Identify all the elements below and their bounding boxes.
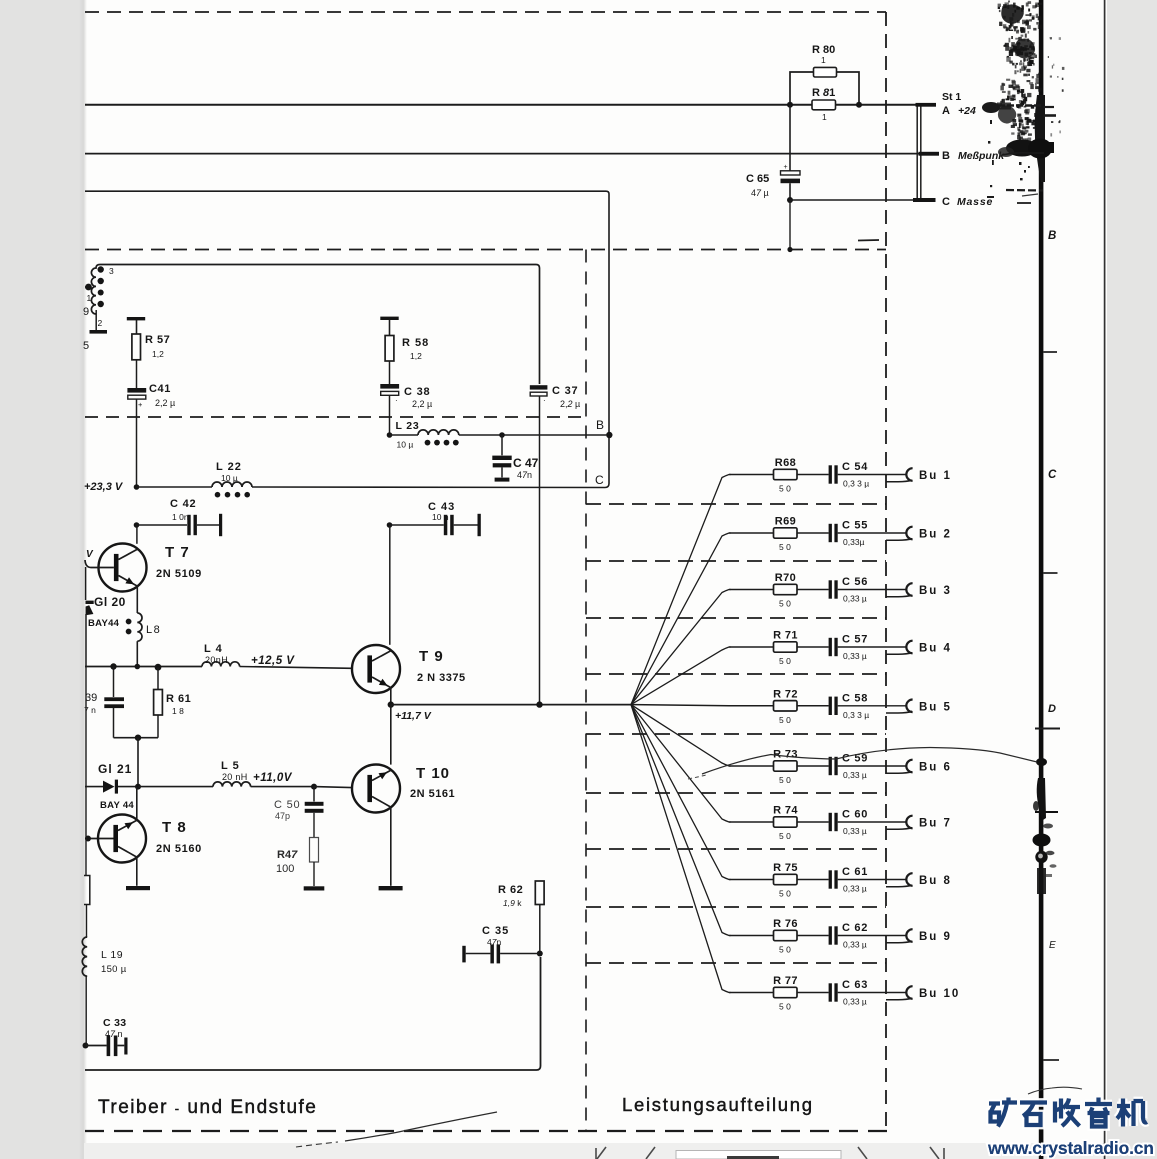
svg-text:C: C bbox=[595, 473, 604, 487]
junction C47 bbox=[499, 432, 505, 438]
svg-text:150 µ: 150 µ bbox=[101, 964, 127, 975]
svg-text:47n: 47n bbox=[517, 470, 532, 480]
inductor L5 bbox=[213, 782, 251, 787]
resistor R76 bbox=[774, 930, 798, 940]
svg-text:C 37: C 37 bbox=[552, 385, 578, 397]
junction transformer left lead bbox=[85, 286, 90, 288]
svg-text:0,3 3 µ: 0,3 3 µ bbox=[843, 710, 869, 720]
svg-text:A: A bbox=[942, 105, 950, 117]
wire to C43 bbox=[390, 524, 444, 526]
svg-text:·: · bbox=[543, 396, 546, 405]
svg-text:R70: R70 bbox=[775, 572, 796, 584]
wire riser node B/C to line y191 bbox=[605, 191, 609, 487]
resistor R70 bbox=[774, 584, 798, 594]
capacitor C39 (page edge, label cut) bbox=[104, 697, 124, 701]
svg-text:5 0: 5 0 bbox=[779, 831, 791, 841]
svg-text:L 5: L 5 bbox=[221, 760, 240, 772]
svg-text:BAY 44: BAY 44 bbox=[100, 800, 134, 811]
wire fan line to Bu 8 bbox=[631, 705, 731, 880]
wire Bu3 row left bbox=[729, 589, 774, 591]
svg-text:BAY44: BAY44 bbox=[88, 618, 120, 629]
svg-text:C 42: C 42 bbox=[170, 498, 196, 510]
svg-text:2: 2 bbox=[98, 318, 103, 328]
svg-text:R 73: R 73 bbox=[773, 749, 798, 761]
capacitor C50 bbox=[305, 802, 324, 806]
svg-text:B: B bbox=[942, 150, 950, 162]
connector Bu 3 socket bbox=[906, 583, 912, 596]
svg-text:Bu 1: Bu 1 bbox=[919, 470, 952, 482]
svg-text:L 23: L 23 bbox=[396, 420, 420, 432]
svg-text:5 0: 5 0 bbox=[779, 775, 791, 785]
svg-text:R 58: R 58 bbox=[402, 337, 429, 349]
capacitor C56 bbox=[829, 580, 832, 598]
junction +23,3V bbox=[134, 484, 140, 490]
junction C33 bbox=[83, 1043, 89, 1049]
svg-text:0,33 µ: 0,33 µ bbox=[843, 770, 867, 780]
wire R80 bypass loop bbox=[790, 72, 859, 105]
resistor at page edge (half cut) bbox=[84, 876, 90, 905]
resistor R61 bbox=[154, 690, 163, 716]
capacitor C62 bbox=[829, 926, 832, 944]
svg-text:1 8: 1 8 bbox=[172, 706, 184, 716]
svg-text:2 N 3375: 2 N 3375 bbox=[417, 672, 466, 684]
junction R62 node bbox=[536, 701, 542, 707]
resistor R58 top terminal bbox=[380, 317, 398, 320]
wire C47 upper bbox=[501, 435, 503, 455]
svg-text:Bu 5: Bu 5 bbox=[919, 701, 952, 713]
connector St1 pin C bar bbox=[913, 198, 936, 202]
svg-text:5 0: 5 0 bbox=[779, 889, 791, 899]
svg-text:R 57: R 57 bbox=[145, 334, 170, 346]
svg-text:R 62: R 62 bbox=[498, 884, 523, 896]
connector St1 pin B bar bbox=[919, 152, 940, 156]
diode Gl21 bbox=[103, 781, 115, 793]
connector Bu 1 socket bbox=[906, 468, 912, 481]
svg-text:+: + bbox=[784, 164, 788, 171]
wire +11,7V line to fan point bbox=[391, 704, 631, 706]
wire Bu2 right bbox=[838, 532, 906, 534]
wire inner box bottom line bbox=[85, 957, 541, 1070]
wire Messpunkt line B bbox=[85, 153, 919, 155]
wire Masse line C to St1 bbox=[790, 199, 913, 201]
svg-text:E: E bbox=[1049, 940, 1056, 951]
wire L4 to T9 base bbox=[240, 667, 352, 669]
svg-text:C 57: C 57 bbox=[842, 634, 868, 646]
wire Bu8 row left bbox=[729, 879, 774, 881]
wire Bu2 middle bbox=[797, 532, 829, 534]
capacitor C42 bbox=[187, 515, 190, 535]
svg-text:R 72: R 72 bbox=[773, 688, 798, 700]
resistor R58 bbox=[385, 336, 394, 362]
watermark CJK characters bbox=[989, 1098, 1147, 1127]
svg-text:T 9: T 9 bbox=[419, 648, 444, 665]
resistor R57 top terminal bbox=[127, 317, 145, 320]
svg-text:D: D bbox=[1048, 703, 1056, 715]
wire fan line to Bu 6 bbox=[631, 705, 731, 766]
wire fan line to Bu 5 (straight) bbox=[631, 705, 729, 706]
capacitor C38 (electrolytic) bbox=[380, 384, 399, 389]
wire page-edge column bbox=[85, 667, 87, 838]
svg-text:0,3 3 µ: 0,3 3 µ bbox=[843, 479, 869, 489]
resistor R73 bbox=[774, 761, 798, 771]
svg-text:C 62: C 62 bbox=[842, 922, 868, 934]
svg-text:20nH: 20nH bbox=[205, 655, 228, 665]
wire down to Gl21 node bbox=[137, 738, 139, 787]
wire R57 to C41 bbox=[136, 360, 138, 388]
svg-text:47n: 47n bbox=[487, 937, 501, 947]
junction node B bbox=[606, 432, 612, 438]
svg-text:Bu 3: Bu 3 bbox=[919, 585, 952, 597]
wire Bu9 right bbox=[838, 935, 906, 937]
wire to C42 bbox=[137, 524, 188, 526]
svg-text:5 0: 5 0 bbox=[779, 715, 791, 725]
junction L23 left bbox=[387, 432, 393, 438]
connector St1 pin A bar bbox=[916, 103, 937, 107]
svg-text:C 54: C 54 bbox=[842, 461, 868, 473]
dashed separator y417 bbox=[85, 416, 586, 418]
dashed frame right edge bbox=[885, 12, 887, 1131]
svg-text:C 35: C 35 bbox=[482, 925, 509, 937]
svg-text:+23,3 V: +23,3 V bbox=[84, 481, 124, 493]
capacitor C65 (electrolytic) bbox=[781, 171, 801, 175]
svg-text:47p: 47p bbox=[275, 811, 290, 821]
svg-text:1 0n: 1 0n bbox=[172, 512, 189, 522]
artifact speckle field top right bbox=[998, 1, 1065, 151]
capacitor C59 bbox=[829, 757, 832, 775]
wire Bu10 row left bbox=[729, 992, 774, 994]
wire C39 lower bbox=[113, 708, 115, 738]
svg-text:St 1: St 1 bbox=[942, 91, 961, 103]
wire R61 lower bbox=[157, 715, 159, 738]
connector Bu 4 socket bbox=[906, 641, 912, 654]
svg-text:2N 5161: 2N 5161 bbox=[410, 788, 455, 800]
junction on dashed line bbox=[787, 247, 792, 252]
wire C50 upper bbox=[313, 787, 315, 802]
page edge boundary line right bbox=[1104, 0, 1106, 1159]
svg-text:Bu 2: Bu 2 bbox=[919, 529, 952, 541]
wire C38 down to L23 node bbox=[389, 395, 391, 435]
svg-text:C 60: C 60 bbox=[842, 809, 868, 821]
transistor T8 bbox=[98, 815, 146, 863]
svg-text:C: C bbox=[942, 196, 950, 208]
diode Gl20 (page edge) bbox=[86, 601, 94, 604]
inductor L19 (page edge) bbox=[82, 937, 87, 976]
svg-text:0,33µ: 0,33µ bbox=[843, 537, 865, 547]
wire sub-rail bbox=[114, 737, 159, 739]
capacitor C60 bbox=[829, 813, 832, 831]
svg-text:Gl 21: Gl 21 bbox=[98, 762, 132, 776]
connector Bu 6 socket bbox=[906, 760, 912, 773]
svg-text:B: B bbox=[1048, 230, 1056, 242]
svg-text:Bu 10: Bu 10 bbox=[919, 988, 960, 1000]
resistor R80 bbox=[814, 67, 837, 77]
svg-text:R69: R69 bbox=[775, 516, 796, 528]
wire C43 node down to T9 bbox=[389, 525, 391, 645]
wire Bu6 row left bbox=[729, 765, 774, 767]
dashed frame top edge bbox=[85, 11, 886, 13]
wire page edge to Gl21 bbox=[85, 786, 103, 788]
svg-text:Bu 7: Bu 7 bbox=[919, 818, 952, 830]
svg-text:0,33 µ: 0,33 µ bbox=[843, 594, 867, 604]
right gray page-edge strip bbox=[1107, 0, 1157, 1159]
resistor R68 bbox=[774, 469, 798, 479]
junction rail R61 bbox=[155, 664, 162, 671]
dashed separator y249 bbox=[85, 249, 886, 251]
svg-text:T 8: T 8 bbox=[162, 819, 187, 836]
wire L19 to C33 bbox=[85, 976, 87, 1045]
resistor R81 bbox=[812, 100, 836, 110]
artifact sparse specks below blob bbox=[987, 120, 1030, 198]
wire Bu3 middle bbox=[797, 589, 829, 591]
capacitor C47 bbox=[492, 456, 511, 460]
svg-text:10 n: 10 n bbox=[432, 512, 449, 522]
artifact blob over +24V bbox=[982, 102, 1000, 113]
svg-text:1,9 k: 1,9 k bbox=[503, 898, 522, 908]
capacitor C37 (electrolytic) bbox=[530, 385, 548, 389]
svg-text:C 47: C 47 bbox=[513, 456, 539, 470]
svg-text:C 61: C 61 bbox=[842, 866, 868, 878]
wire Bu1 row left bbox=[729, 474, 774, 476]
svg-text:47 n: 47 n bbox=[105, 1029, 123, 1039]
wire fan line to Bu 4 bbox=[631, 647, 731, 705]
svg-text:2N 5160: 2N 5160 bbox=[156, 843, 202, 855]
wire line y191 to riser bbox=[85, 190, 606, 192]
wire R61 upper bbox=[157, 667, 159, 689]
artifact stub right of fold at line A bbox=[1043, 106, 1054, 108]
wire fan line to Bu 2 bbox=[631, 533, 731, 705]
wire R62 lower bbox=[539, 905, 541, 954]
artifact bottom ruler marks (cut) bbox=[596, 1147, 606, 1159]
svg-text:5: 5 bbox=[83, 340, 89, 352]
svg-text:1: 1 bbox=[821, 55, 826, 65]
wire C50 to R47 bbox=[313, 813, 315, 837]
svg-text:Gl 20: Gl 20 bbox=[94, 595, 126, 609]
wire to L5 bbox=[138, 786, 213, 788]
connector Bu 8 socket bbox=[906, 873, 912, 886]
svg-text:Bu 4: Bu 4 bbox=[919, 643, 952, 655]
svg-text:C: C bbox=[1048, 469, 1057, 481]
svg-text:47 µ: 47 µ bbox=[751, 188, 769, 198]
wire fan line to Bu 9 bbox=[631, 705, 731, 936]
svg-text:3: 3 bbox=[109, 266, 114, 276]
svg-text:R 81: R 81 bbox=[812, 87, 835, 99]
wire inner box top line bbox=[100, 265, 540, 385]
svg-text:R68: R68 bbox=[775, 457, 796, 469]
wire Bu8 middle bbox=[797, 879, 829, 881]
wire Bu10 right bbox=[838, 992, 906, 994]
svg-text:·: · bbox=[395, 396, 398, 405]
junction T8 base node (page edge) bbox=[85, 838, 114, 840]
junction C50 node bbox=[311, 784, 317, 790]
wire fan line to Bu 3 bbox=[631, 590, 731, 705]
inductor L4 bbox=[202, 662, 240, 667]
wire Bu3 right bbox=[838, 589, 906, 591]
svg-text:B: B bbox=[596, 418, 604, 432]
artifact rough continuation of line A to fold bbox=[989, 104, 1043, 106]
svg-text:Leistungsaufteilung: Leistungsaufteilung bbox=[622, 1094, 814, 1115]
junction rail L8 bbox=[135, 664, 141, 670]
wire L5 to C50 node bbox=[251, 786, 314, 788]
svg-text:0,33 µ: 0,33 µ bbox=[843, 940, 867, 950]
wire Bu4 row left bbox=[729, 646, 774, 648]
resistor R77 bbox=[774, 987, 798, 997]
artifact stub left of fold y203 bbox=[1017, 202, 1031, 204]
svg-text:R47: R47 bbox=[277, 849, 298, 861]
artifact paper crack middle right bbox=[702, 748, 1037, 775]
wire T10 emitter down bbox=[390, 807, 392, 886]
wire Bu4 right bbox=[838, 646, 906, 648]
transistor T9 bbox=[352, 645, 400, 693]
wire R47 to ground bbox=[313, 862, 315, 886]
artifact paper crack bottom left bbox=[345, 1112, 497, 1141]
wire C37 down bbox=[539, 396, 541, 704]
capacitor C43 bbox=[444, 515, 448, 535]
junction Gl21 node bbox=[135, 784, 141, 790]
tick on fold y573 bbox=[1043, 572, 1057, 574]
svg-text:C 56: C 56 bbox=[842, 576, 868, 588]
svg-text:5 0: 5 0 bbox=[779, 945, 791, 955]
wire T8 collector up to Gl21 node bbox=[136, 787, 138, 821]
wire left edge below base bbox=[85, 567, 87, 600]
svg-text:Bu 6: Bu 6 bbox=[919, 762, 952, 774]
svg-text:1,2: 1,2 bbox=[410, 351, 422, 361]
svg-text:L8: L8 bbox=[146, 624, 161, 636]
transistor T10 bbox=[352, 765, 400, 813]
capacitor C55 bbox=[829, 524, 832, 542]
wire C42 node to T7 collector bbox=[136, 525, 138, 544]
svg-text:+12,5 V: +12,5 V bbox=[251, 655, 295, 667]
svg-text:5 0: 5 0 bbox=[779, 656, 791, 666]
artifact blob over Messpunkt bbox=[1006, 140, 1038, 157]
resistor R69 bbox=[774, 528, 798, 538]
capacitor C61 bbox=[829, 870, 832, 888]
svg-text:R 74: R 74 bbox=[773, 805, 798, 817]
wire transformer pin2 down bbox=[95, 310, 97, 330]
svg-text:C 33: C 33 bbox=[103, 1017, 126, 1029]
junction C43 bbox=[387, 522, 393, 528]
ground T10 bbox=[379, 886, 403, 890]
resistor R62 bbox=[539, 705, 541, 881]
svg-text:R 75: R 75 bbox=[773, 862, 798, 874]
svg-text:5 0: 5 0 bbox=[779, 484, 791, 494]
svg-text:5 0: 5 0 bbox=[779, 542, 791, 552]
connector Bu 7 socket bbox=[906, 816, 912, 829]
left gray page-edge strip bbox=[0, 0, 79, 1159]
resistor R72 bbox=[774, 701, 798, 711]
junction +11,7V node bbox=[388, 701, 394, 707]
junction sub-rail bbox=[135, 735, 141, 741]
svg-text:2,2 µ: 2,2 µ bbox=[155, 398, 175, 408]
resistor R47 (faint) bbox=[310, 838, 319, 863]
junction node A-R81 left bbox=[787, 102, 793, 108]
ground T8 bbox=[126, 886, 150, 890]
svg-text:0,33 µ: 0,33 µ bbox=[843, 826, 867, 836]
tick on fold y352 bbox=[1043, 351, 1057, 353]
wire T10 collector up bbox=[390, 705, 392, 765]
wire C39 upper bbox=[113, 667, 115, 698]
svg-text:10 µ: 10 µ bbox=[397, 440, 414, 450]
wire Bu9 middle bbox=[797, 935, 829, 937]
capacitor C63 bbox=[829, 983, 832, 1001]
wire Bu5 middle bbox=[797, 705, 829, 707]
wire T8 emitter down bbox=[136, 857, 138, 886]
svg-text:+24: +24 bbox=[958, 105, 976, 117]
wire fan line to Bu 7 bbox=[631, 705, 731, 822]
wire Bu6 right bbox=[838, 765, 906, 767]
svg-text:+11,7 V: +11,7 V bbox=[395, 710, 432, 722]
dashed frame bottom edge bbox=[85, 1130, 887, 1132]
wire T9 emitter down bbox=[390, 688, 392, 705]
svg-text:C 58: C 58 bbox=[842, 692, 868, 704]
connector Bu 10 socket bbox=[906, 986, 912, 999]
svg-text:20 nH: 20 nH bbox=[222, 772, 248, 782]
svg-text:R 77: R 77 bbox=[773, 975, 798, 987]
wire Bu8 right bbox=[838, 879, 906, 881]
wire Bu7 right bbox=[838, 821, 906, 823]
svg-text:1: 1 bbox=[822, 112, 827, 122]
svg-text:L 4: L 4 bbox=[204, 643, 223, 655]
svg-text:39: 39 bbox=[85, 692, 97, 704]
wire L22 to C-line corner bbox=[252, 486, 605, 489]
wire Bu2 row left bbox=[729, 532, 774, 534]
inductor L23 bbox=[418, 430, 459, 435]
wire Bu9 row left bbox=[729, 935, 774, 937]
svg-text:0,33 µ: 0,33 µ bbox=[843, 884, 867, 894]
transistor T7 bbox=[99, 544, 147, 592]
wire L8 to rail bbox=[136, 641, 138, 666]
wire C65 lower bbox=[789, 183, 791, 200]
artifact rough streak above Masse bbox=[1006, 189, 1043, 192]
wire L23 to node B bbox=[459, 434, 606, 436]
capacitor C35 bbox=[462, 946, 465, 963]
resistor R57 bbox=[132, 334, 141, 360]
wire R58 to C38 bbox=[389, 361, 391, 384]
svg-text:C41: C41 bbox=[149, 383, 171, 395]
wire Bu4 middle bbox=[797, 646, 829, 648]
resistor R71 bbox=[774, 642, 798, 652]
wire Bu10 middle bbox=[797, 992, 829, 994]
svg-text:1,2: 1,2 bbox=[152, 349, 164, 359]
svg-text:R 61: R 61 bbox=[166, 693, 191, 705]
wire rail from page edge bbox=[85, 666, 202, 668]
wire to L19 bbox=[86, 905, 88, 938]
artifact short mark above dashed line bbox=[858, 239, 879, 242]
wire C65 down to dashed line bbox=[789, 200, 791, 250]
svg-text:C 38: C 38 bbox=[404, 386, 430, 398]
wire Bu5 row left bbox=[729, 705, 774, 707]
tick crossing fold y728 bbox=[1035, 728, 1060, 730]
wire +23,3V to L22 bbox=[137, 486, 213, 488]
wire Bu5 right bbox=[838, 705, 906, 707]
svg-text:C 55: C 55 bbox=[842, 520, 868, 532]
svg-text:5 0: 5 0 bbox=[779, 599, 791, 609]
junction node R81 right bbox=[856, 102, 862, 108]
svg-text:5 0: 5 0 bbox=[779, 1002, 791, 1012]
wire Bu1 right bbox=[838, 474, 906, 476]
artifact blobs on fold line middle bbox=[1036, 758, 1047, 766]
svg-text:Bu 9: Bu 9 bbox=[919, 931, 952, 943]
svg-text:Bu 8: Bu 8 bbox=[919, 875, 952, 887]
wire Bu6 middle bbox=[797, 765, 829, 767]
wire C65 upper bbox=[789, 105, 791, 171]
svg-text:R 71: R 71 bbox=[773, 630, 798, 642]
capacitor C33 bbox=[107, 1036, 111, 1057]
wire T7 emitter down to L8 bbox=[136, 586, 138, 613]
ground transformer bbox=[90, 330, 108, 334]
connector Bu 9 socket bbox=[906, 929, 912, 942]
svg-text:L 22: L 22 bbox=[216, 461, 242, 473]
dashed vertical x586 (Leistungsaufteilung left border) bbox=[585, 250, 587, 1132]
